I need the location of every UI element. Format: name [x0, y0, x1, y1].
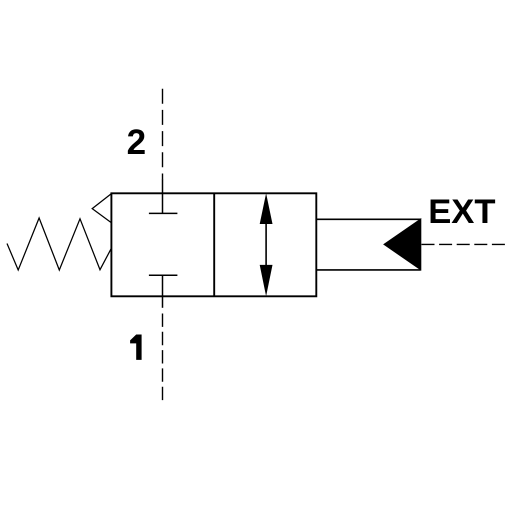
flow arrow shaft [265, 200, 267, 290]
port 1 stub line [162, 275, 164, 308]
EXT dashed pilot line [422, 243, 505, 245]
port 2 dashed centerline [162, 89, 164, 180]
envelope divider between positions [213, 193, 215, 296]
pilot passage lower line [316, 269, 421, 271]
svg-text:EXT: EXT [428, 193, 495, 231]
pilot solid triangle [384, 219, 421, 270]
flow arrow head up [260, 193, 273, 224]
port 1 dashed centerline [162, 314, 164, 401]
svg-text:2: 2 [127, 123, 146, 162]
return spring [7, 218, 111, 270]
flow arrow head down [260, 265, 273, 296]
spring seat open triangle [92, 194, 111, 223]
label 1 [130, 335, 142, 360]
port 2 stub line [162, 179, 164, 214]
valve body outline (two-position envelope) [111, 193, 316, 296]
pilot passage upper line [316, 218, 421, 220]
port 1 blocked-seat bar [149, 274, 178, 276]
port 2 blocked-seat bar [149, 212, 178, 214]
